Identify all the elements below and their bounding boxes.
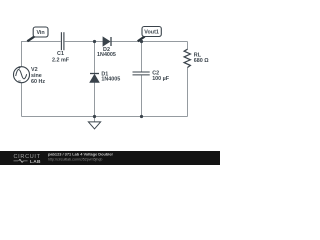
wire bottom rail	[22, 116, 188, 118]
wire left rail upper	[21, 41, 23, 67]
CircuitLab logo	[14, 154, 41, 165]
resistor RL	[184, 49, 209, 67]
wire C2 branch upper	[141, 42, 143, 72]
wire top rail middle segment	[65, 41, 103, 43]
wire D1 branch lower	[94, 82, 96, 116]
junction dot top D1	[93, 40, 96, 43]
svg-text:680 Ω: 680 Ω	[194, 58, 209, 64]
footer bar	[0, 151, 220, 165]
svg-text:Vout1: Vout1	[144, 30, 159, 36]
svg-text:60 Hz: 60 Hz	[31, 79, 45, 85]
junction dot bottom ground	[93, 115, 96, 118]
svg-text:1N4005: 1N4005	[97, 52, 116, 58]
svg-text:1N4005: 1N4005	[101, 77, 120, 83]
wire right rail lower	[187, 67, 189, 116]
diode D2	[97, 37, 116, 58]
wire top rail left segment	[22, 41, 61, 43]
svg-text:2.2 mF: 2.2 mF	[52, 57, 70, 63]
capacitor C1	[52, 32, 70, 63]
wire C2 branch lower	[141, 75, 143, 116]
svg-text:100 µF: 100 µF	[152, 76, 170, 82]
ground	[88, 122, 100, 129]
wire D1 branch upper	[94, 42, 96, 74]
wire ground stub	[94, 117, 96, 122]
svg-text:http://circuitlab.com/c/52pvm5: http://circuitlab.com/c/52pvm5jhqb	[48, 158, 102, 162]
node Vout1 flag	[138, 27, 162, 42]
junction dot bottom C2	[140, 115, 143, 118]
node Vin flag	[27, 27, 48, 41]
svg-text:C1: C1	[57, 51, 64, 57]
wire right rail upper	[187, 42, 189, 50]
junction dot top C2	[140, 40, 143, 43]
voltage source V2	[14, 66, 46, 85]
svg-text:pab123 / 371 Lab 4 Voltage Dou: pab123 / 371 Lab 4 Voltage Doubler	[48, 152, 113, 157]
svg-text:LAB: LAB	[30, 159, 41, 165]
wire left rail lower	[21, 83, 23, 117]
svg-text:Vin: Vin	[36, 30, 44, 36]
wire top rail right segment	[111, 41, 187, 43]
diode D1	[90, 71, 120, 82]
capacitor C2	[133, 70, 170, 81]
